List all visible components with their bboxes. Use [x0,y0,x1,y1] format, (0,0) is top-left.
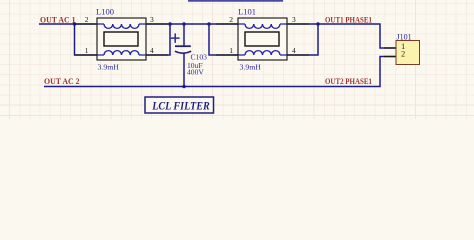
wire: L101 pin3 to OUT1 PHASE1 and down to J101 pin1 [287,24,396,48]
wire: OUT AC 1 top-left horizontal into L100 [39,23,97,25]
L100 core rectangle [104,32,138,46]
node: C103 top junction [182,22,186,26]
C103 top plate [175,45,191,47]
L100 pin numbers [85,15,154,55]
L100 body box [97,18,146,60]
svg-text:L101: L101 [238,6,256,16]
svg-text:4: 4 [150,46,154,55]
wire: vertical joining pin3/pin4 of L100 [146,24,170,55]
svg-text:L100: L100 [96,6,114,16]
node: C103 bottom junction [182,85,186,89]
wire: vertical joining pin3/pin4 of L101 [287,24,318,55]
wire: L100 pin3 to vertical x=170 and across to cap/L101 [146,23,239,25]
L101 core rectangle [245,32,279,46]
J101 pin stubs [384,48,396,57]
svg-text:3: 3 [292,15,296,24]
wire: bottom rail OUT AC 2 to J101 pin2 [44,57,396,87]
svg-text:2: 2 [85,15,89,24]
node: L101 input junction [207,22,211,26]
svg-text:1: 1 [85,46,89,55]
title box [145,97,214,113]
L100 top winding [97,24,146,28]
wire: vertical from top rail down to L101 pin1 [209,24,238,55]
svg-text:400V: 400V [187,68,204,77]
L101 pin numbers [229,15,296,55]
svg-text:4: 4 [292,46,296,55]
svg-text:OUT AC 2: OUT AC 2 [44,77,80,86]
L101 top winding [238,24,287,28]
L101 bottom winding [238,51,287,55]
L100 bottom winding [97,51,146,55]
wire: capacitor C103 bottom lead [183,53,185,87]
svg-text:J101: J101 [397,33,412,42]
slightly stronger major grid lines [0,0,474,119]
node: L101 output junction [316,22,320,26]
C103 bottom plate (curved) [175,51,191,53]
L101 pins [216,24,309,55]
svg-text:OUT1 PHASE1: OUT1 PHASE1 [325,16,372,25]
svg-text:3: 3 [150,15,154,24]
svg-text:2: 2 [401,49,405,59]
svg-text:LCL FILTER: LCL FILTER [151,98,209,112]
J101 body [396,41,420,65]
svg-text:OUT2 PHASE1: OUT2 PHASE1 [325,77,372,86]
wire: vertical branch down to pin1 of L100 [75,24,98,55]
C103 plus sign [171,33,180,43]
wire: capacitor C103 top lead [183,24,185,46]
svg-text:2: 2 [229,15,233,24]
J101 pin names [401,41,405,59]
svg-text:1: 1 [229,46,233,55]
L100 pins [75,24,168,55]
partial box edge cut off at top of screenshot [188,0,283,2]
svg-text:3.9mH: 3.9mH [240,63,262,72]
svg-text:OUT AC 1: OUT AC 1 [40,16,76,25]
sheet background [0,0,474,119]
node: L100 output junction [168,22,172,26]
svg-text:3.9mH: 3.9mH [98,63,120,72]
L101 body box [238,18,287,60]
node: L100 input junction [73,22,77,26]
junction dots [73,22,320,88]
